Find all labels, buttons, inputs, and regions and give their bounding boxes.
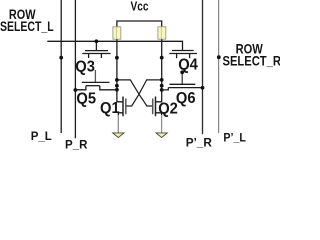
junction dot node R / cross-couple xyxy=(160,78,164,82)
svg-text:Q3: Q3 xyxy=(75,58,95,75)
svg-text:Q6: Q6 xyxy=(176,90,196,107)
bit line P_L xyxy=(60,0,62,133)
resistor R1 (load, left) xyxy=(113,27,121,39)
transistor Q5 (pass, row select R / P_R) xyxy=(75,70,117,90)
cross-couple wire node R to Q1 gate xyxy=(126,80,162,106)
svg-text:SELECT_L: SELECT_L xyxy=(0,18,54,34)
transistor Q3 (pass, row select L / P_L) xyxy=(82,41,110,58)
transistor Q6 (pass, row select R / P'_R) xyxy=(162,72,203,90)
junction dot Q6 gate stub xyxy=(180,70,184,74)
junction dot node L / cross-couple xyxy=(115,78,119,82)
junction dot Q3 gate on word line xyxy=(95,39,99,43)
junction dot P_R / Q5 source xyxy=(74,88,78,92)
svg-text:P’_R: P’_R xyxy=(186,135,213,149)
svg-text:Q4: Q4 xyxy=(178,56,198,73)
svg-text:Q2: Q2 xyxy=(158,100,178,117)
transistor Q2 (inverter right) xyxy=(153,97,162,117)
junction dot node R / Q4 source level xyxy=(160,56,164,60)
junction dot P_L / Q3 source level xyxy=(59,56,63,60)
junction dot node R / Q6 source xyxy=(160,88,164,92)
junction dot node L mid xyxy=(115,84,119,88)
svg-text:P_R: P_R xyxy=(65,139,88,150)
junction dot P'_R / Q6 drain xyxy=(201,86,205,90)
ground symbol under Q2 xyxy=(156,133,167,138)
junction dot node R mid xyxy=(160,84,164,88)
junction dot node L / Q5 drain xyxy=(115,88,119,92)
ground symbol under Q1 xyxy=(113,133,124,138)
cross-couple wire node L to Q2 gate xyxy=(117,80,153,106)
bit line P_R xyxy=(74,0,76,138)
transistor Q4 (pass, row select L / P'_L) xyxy=(169,51,197,59)
word line ROW SELECT_L (ends with Q4 gate lead) xyxy=(47,41,182,50)
svg-text:Q1: Q1 xyxy=(100,100,120,117)
junction dot P'_L / row select R label xyxy=(217,55,221,59)
bit line P'_R xyxy=(202,0,204,134)
wire Q2 source to ground xyxy=(161,115,163,133)
wire Q1 source to ground xyxy=(117,115,119,133)
svg-text:Vcc: Vcc xyxy=(131,1,149,14)
svg-text:SELECT_R: SELECT_R xyxy=(223,53,281,68)
junction dot node L / Q3 drain level xyxy=(115,56,119,60)
node L wire (storage node left, from R1 down to Q1 drain lead) xyxy=(117,39,123,102)
resistor R2 (load, right) xyxy=(158,27,166,39)
bit line P'_L xyxy=(218,0,220,133)
svg-text:Q5: Q5 xyxy=(76,90,96,107)
transistor Q1 (inverter left) xyxy=(118,97,126,117)
Vcc rail xyxy=(117,21,162,27)
node R wire (storage node right, from R2 down to Q2 drain lead) xyxy=(156,39,162,102)
svg-text:P_L: P_L xyxy=(31,130,52,143)
svg-text:P’_L: P’_L xyxy=(223,132,246,144)
